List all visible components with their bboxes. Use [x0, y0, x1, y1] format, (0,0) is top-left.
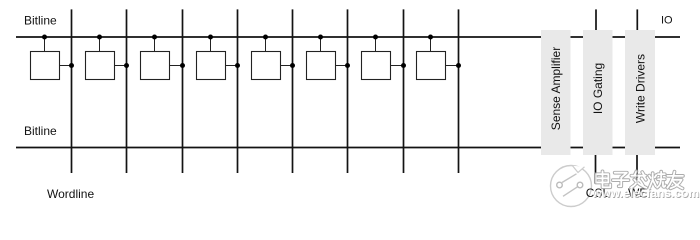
svg-text:IO: IO [661, 15, 673, 27]
svg-text:Sense Amplifier: Sense Amplifier [549, 47, 563, 130]
svg-text:Write Drivers: Write Drivers [633, 54, 647, 123]
svg-text:www.elecfans.com: www.elecfans.com [591, 186, 699, 200]
svg-text:IO Gating: IO Gating [591, 63, 605, 114]
svg-text:Bitline: Bitline [24, 14, 57, 28]
svg-text:Wordline: Wordline [47, 187, 94, 201]
svg-text:Bitline: Bitline [24, 124, 57, 138]
